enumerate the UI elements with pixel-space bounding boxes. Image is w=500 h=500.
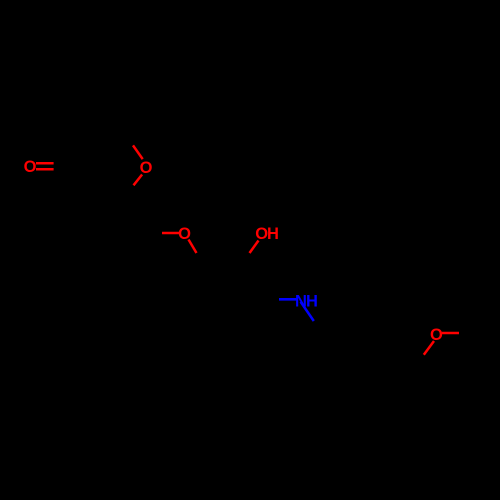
svg-text:O: O — [24, 158, 37, 176]
svg-text:H: H — [306, 292, 318, 310]
svg-text:O: O — [178, 225, 191, 243]
svg-text:O: O — [140, 159, 153, 177]
svg-text:H: H — [267, 225, 279, 243]
svg-text:O: O — [430, 326, 443, 344]
